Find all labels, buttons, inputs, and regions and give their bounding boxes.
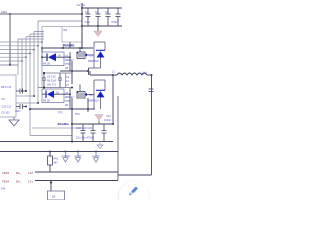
wire left fan horizontal 7 bbox=[0, 64, 18, 66]
wire bus vertical x34 bbox=[33, 32, 35, 97]
node junction (82,48) bbox=[81, 47, 83, 49]
wire bus vertical x30 bbox=[29, 34, 31, 136]
node junction (77.3,52.8) bbox=[76, 52, 78, 54]
wire cap bank bottom rail bbox=[82, 25, 122, 27]
wire bus vertical x18 bbox=[17, 39, 19, 75]
svg-text:1B: 1B bbox=[52, 195, 55, 199]
FAB pencil icon bbox=[128, 186, 138, 196]
capacitor cluster mid rail bottom bbox=[38, 87, 72, 89]
node junction (82,26) bbox=[81, 25, 83, 27]
svg-text:FB04: FB04 bbox=[2, 180, 10, 184]
diode D3 bbox=[42, 53, 70, 61]
svg-text:+C3V3O: +C3V3O bbox=[61, 155, 70, 158]
svg-text:100nF: 100nF bbox=[104, 119, 112, 122]
power arrow 1 bbox=[63, 152, 69, 163]
node junction (113,124) bbox=[112, 123, 114, 125]
node junction (82,8) bbox=[81, 7, 83, 9]
svg-text:C6 103: C6 103 bbox=[2, 112, 11, 115]
svg-text:1N: 1N bbox=[58, 55, 61, 58]
resistor R41 bbox=[48, 152, 53, 173]
node junction (50,152) bbox=[49, 151, 51, 153]
svg-text:TP8: TP8 bbox=[65, 100, 70, 103]
wire vertical right x151 bbox=[151, 75, 153, 175]
diode small row1 bbox=[84, 53, 87, 56]
wire vertical x65.5 cluster bbox=[65, 73, 67, 88]
node junction (44,73) bbox=[43, 72, 45, 74]
wire bus stub y36.5 bbox=[26, 36, 44, 38]
node junction (34,96) bbox=[33, 95, 35, 97]
svg-text:1N: 1N bbox=[56, 92, 59, 95]
wire left fan horizontal 4 bbox=[0, 52, 30, 54]
wire IC pin y96 bbox=[16, 95, 34, 97]
node junction (151,75) bbox=[151, 74, 153, 76]
svg-text:1B: 1B bbox=[65, 67, 68, 70]
wire FB04 bbox=[35, 180, 118, 182]
node junction (72,71) bbox=[71, 70, 73, 72]
diode D5 bbox=[96, 50, 105, 57]
capacitor C2 bbox=[96, 8, 101, 26]
capacitor C16 bbox=[81, 124, 86, 142]
svg-text:MBR0520: MBR0520 bbox=[88, 60, 99, 63]
capacitor C21 bbox=[102, 124, 107, 142]
node junction (38,103) bbox=[37, 102, 39, 104]
transistor Q2 symbol bbox=[77, 85, 85, 99]
node junction (51,182.5) bbox=[50, 181, 52, 183]
net label FB03 bbox=[2, 171, 33, 175]
node junction (65,152) bbox=[65, 151, 67, 153]
capacitor C24 bbox=[116, 8, 121, 26]
svg-text:BA_: BA_ bbox=[16, 180, 22, 184]
svg-text:C1: C1 bbox=[85, 10, 89, 14]
node junction (26,106.5) bbox=[25, 106, 27, 108]
svg-text:C2: C2 bbox=[95, 10, 99, 14]
FAB shadow bbox=[118, 182, 148, 212]
svg-text:C24: C24 bbox=[85, 20, 91, 24]
node junction (72,141.5) bbox=[71, 141, 73, 143]
capacitor C1 bbox=[86, 8, 91, 26]
wire vertical x88 lower bbox=[87, 98, 89, 112]
svg-text:L2: L2 bbox=[112, 70, 115, 74]
inductor L2 coil bbox=[117, 73, 147, 75]
svg-text:B1: B1 bbox=[64, 28, 68, 32]
node junction (82,14) bbox=[81, 13, 83, 15]
wire stub y26.5 bbox=[42, 26, 62, 28]
node junction (44,87.5) bbox=[43, 86, 45, 88]
capacitor C18 bbox=[91, 124, 96, 142]
svg-text:TP5: TP5 bbox=[58, 112, 63, 115]
wire corner y135.5 bbox=[30, 135, 72, 137]
wire left fan horizontal 2 bbox=[0, 45, 38, 47]
wire vertical x118 FB04 net bbox=[117, 96, 119, 180]
net label FB04 bbox=[2, 180, 33, 184]
node junction (70,57.2) bbox=[69, 56, 71, 58]
svg-text:30m/9m: 30m/9m bbox=[63, 43, 75, 47]
svg-text:R6 2B: R6 2B bbox=[43, 62, 50, 65]
node junction (80,48) bbox=[79, 47, 81, 49]
svg-text:MBR0520: MBR0520 bbox=[88, 100, 99, 103]
transistor U2 text stack bbox=[65, 55, 74, 70]
node junction (42,57.2) bbox=[41, 56, 43, 58]
ground symbol below bank bbox=[97, 142, 103, 149]
diode D6 loop bbox=[94, 80, 105, 109]
wire bus vertical x38 bbox=[37, 21, 39, 103]
wire vertical x72 upper bbox=[71, 61, 73, 84]
IC U5 text bbox=[2, 98, 21, 115]
connector box bottom bbox=[48, 191, 65, 200]
wire left fan horizontal 6 bbox=[0, 60, 22, 62]
inductor L2 wire in bbox=[90, 74, 117, 76]
wire vertical x72 lower bbox=[71, 98, 73, 142]
wire IC pin y103 bbox=[16, 102, 38, 104]
svg-text:1B: 1B bbox=[65, 104, 68, 107]
wire FB03 bbox=[35, 171, 118, 173]
wire rail y48 bbox=[42, 47, 93, 49]
wire light y128 bbox=[32, 127, 82, 129]
wire branch x51 down bbox=[50, 181, 52, 192]
wire rail y71 bbox=[60, 70, 89, 72]
svg-text:30m/9m: 30m/9m bbox=[58, 122, 70, 126]
wire left fan horizontal 5 bbox=[0, 56, 26, 58]
svg-text:RP1 C13: RP1 C13 bbox=[1, 86, 12, 89]
wire net jog right bbox=[118, 174, 152, 176]
svg-text:C9 C10: C9 C10 bbox=[47, 76, 56, 79]
wire cap bank top rail bbox=[82, 7, 122, 9]
node junction (70,94.2) bbox=[69, 93, 71, 95]
wire bus stub y39 bbox=[18, 38, 44, 40]
wire vertical x90 bbox=[89, 71, 91, 75]
wire B1 to rail bbox=[69, 42, 71, 48]
svg-text:J44: J44 bbox=[1, 188, 6, 191]
power arrow 3 bbox=[93, 152, 99, 163]
svg-text:C3: C3 bbox=[105, 10, 109, 14]
wire bus vertical x26 bbox=[25, 37, 27, 92]
ground symbol below cap bank bbox=[94, 26, 102, 36]
node junction (10,14) bbox=[9, 13, 11, 15]
node junction (78,152) bbox=[77, 151, 79, 153]
svg-text:100n: 100n bbox=[15, 110, 21, 113]
wire Q2 to D6 bbox=[87, 94, 94, 96]
svg-text:1uH: 1uH bbox=[142, 71, 147, 75]
svg-text:+C3V3: +C3V3 bbox=[92, 155, 100, 158]
svg-text:R41: R41 bbox=[54, 158, 59, 161]
svg-text:TP9: TP9 bbox=[75, 113, 80, 116]
diode D4 bbox=[42, 91, 70, 99]
wire bus vertical x42 bbox=[41, 27, 43, 88]
wire vertical x70 row1 bbox=[69, 52, 71, 71]
svg-text:C23: C23 bbox=[106, 115, 111, 118]
node junction (72,124) bbox=[71, 123, 73, 125]
IC U5 box bbox=[0, 75, 16, 117]
svg-text:FB03: FB03 bbox=[2, 171, 10, 175]
wire vertical x88 upper bbox=[88, 68, 90, 75]
power arrow 2 bbox=[75, 152, 81, 163]
svg-text:470uF: 470uF bbox=[111, 20, 119, 24]
capacitor on right vertical bbox=[149, 89, 154, 92]
svg-text:131: 131 bbox=[28, 180, 33, 184]
svg-text:R6 22uF: R6 22uF bbox=[47, 80, 57, 83]
svg-text:467: 467 bbox=[54, 162, 59, 165]
svg-text:C19 C20 C22: C19 C20 C22 bbox=[76, 126, 93, 130]
node junction (22,91) bbox=[21, 90, 23, 92]
node junction (88,71) bbox=[87, 70, 89, 72]
wire rail y108 bbox=[30, 108, 95, 110]
node junction (88,108) bbox=[87, 108, 89, 110]
wire vertical x113 bbox=[112, 75, 114, 124]
wire bus stub y31.5 bbox=[34, 31, 44, 33]
label right of cluster bbox=[66, 76, 70, 87]
node junction (26,91) bbox=[25, 90, 27, 92]
wire main horizontal y152 bbox=[0, 151, 118, 153]
svg-text:BA_: BA_ bbox=[16, 171, 22, 175]
wire vertical x70 row2 bbox=[69, 88, 71, 109]
svg-text:C25 C17: C25 C17 bbox=[2, 106, 12, 109]
capacitor C10 bbox=[58, 73, 62, 88]
svg-text:22u 22u 470uF: 22u 22u 470uF bbox=[76, 136, 94, 140]
wire inductor out bbox=[147, 74, 152, 76]
wire top rail y14 bbox=[0, 13, 82, 15]
component B1 box bbox=[62, 27, 82, 43]
svg-text:341 271: 341 271 bbox=[47, 84, 57, 87]
node junction (63,48) bbox=[62, 47, 64, 49]
capacitor C17 bbox=[16, 104, 26, 109]
diode D6 bbox=[96, 90, 105, 97]
wire bus stub y34 bbox=[30, 33, 44, 35]
wire vertical x10 bbox=[9, 14, 11, 65]
wire Q1 to D5 bbox=[87, 54, 94, 56]
node junction (77.3,92.3) bbox=[76, 91, 78, 93]
svg-text:ANA: ANA bbox=[1, 10, 7, 14]
diode small row2 bbox=[84, 93, 87, 96]
node junction (96,152) bbox=[95, 151, 97, 153]
capacitor C9 bbox=[42, 73, 46, 88]
wire left fan horizontal 3 bbox=[0, 49, 34, 51]
node junction (98,26) bbox=[97, 25, 99, 27]
wire left fan horizontal 1 bbox=[0, 41, 42, 43]
diode D5 loop bbox=[89, 42, 106, 68]
node junction (72,108) bbox=[71, 108, 73, 110]
capacitor C3 bbox=[106, 8, 111, 26]
wire lower cap bank top rail bbox=[72, 123, 113, 125]
diode D4 box row2 left bbox=[42, 89, 64, 103]
diode D3 box row1 left bbox=[42, 52, 64, 66]
transistor Q1 symbol bbox=[77, 48, 85, 59]
wire bus vertical x22 bbox=[21, 39, 23, 91]
svg-text:R6 2B: R6 2B bbox=[43, 99, 50, 102]
node junction (30,108) bbox=[29, 108, 31, 110]
capacitor cluster mid rail top bbox=[44, 72, 72, 74]
node junction (113,75) bbox=[112, 74, 114, 76]
ground symbol below U5 bbox=[9, 117, 19, 126]
capacitor C13 bbox=[16, 89, 26, 94]
node junction (72,87.5) bbox=[71, 87, 73, 89]
node junction (10,65) bbox=[9, 64, 11, 66]
wire rail y21 bbox=[38, 20, 82, 22]
svg-text:+5V_S0: +5V_S0 bbox=[76, 4, 86, 7]
wire stub rail to box1 bbox=[41, 48, 43, 52]
FAB button bbox=[119, 181, 149, 211]
ground symbol above lower cap bank bbox=[95, 115, 103, 125]
svg-text:+C3V3: +C3V3 bbox=[74, 155, 82, 158]
svg-text:TP6: TP6 bbox=[65, 63, 70, 66]
transistor U3 text stack bbox=[65, 92, 74, 107]
wire ground rail y141.5 bbox=[0, 141, 113, 143]
wire vertical x82 cap feed bbox=[81, 3, 83, 48]
svg-text:132: 132 bbox=[28, 171, 33, 175]
